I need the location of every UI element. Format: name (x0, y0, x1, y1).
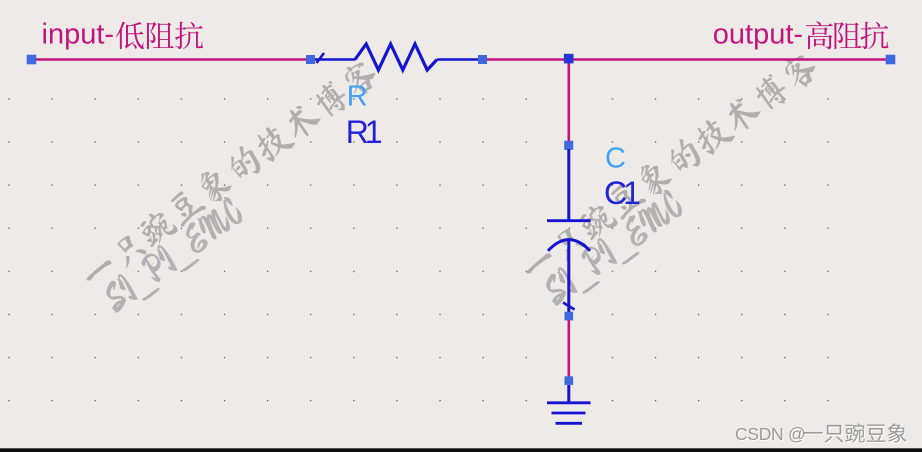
wire node-to-capacitor vertical segment (567, 60, 570, 146)
wire capacitor-to-ground vertical segment (567, 320, 570, 377)
node input endpoint handle (27, 55, 37, 65)
svg-text:C: C (605, 143, 626, 175)
svg-text:R1: R1 (346, 114, 382, 150)
wire output segment (487, 58, 891, 61)
capacitor C1 pin 2 tick (563, 303, 575, 310)
capacitor C1 pin 1 handle (564, 141, 573, 150)
node output endpoint handle (886, 55, 896, 65)
svg-text:R: R (347, 81, 368, 113)
watermark 2 (decorative) (516, 49, 843, 315)
resistor R1 (315, 44, 478, 70)
wire input segment (32, 58, 311, 61)
watermark 1 (decorative) (76, 56, 403, 322)
CSDN credit (decorative) (736, 424, 908, 445)
svg-text:C1: C1 (604, 175, 640, 211)
net label output-高阻抗 (713, 19, 889, 51)
junction node (564, 54, 574, 64)
svg-text:CSDN @: CSDN @ (735, 424, 805, 444)
ground (547, 385, 591, 423)
ground endpoint handle (565, 376, 574, 385)
resistor R1 pin 2 handle (478, 55, 487, 64)
svg-text:input-: input- (42, 19, 115, 51)
svg-text:output-: output- (713, 19, 803, 51)
capacitor C1 pin 2 handle (565, 312, 574, 321)
capacitor C1 (547, 149, 591, 313)
resistor R1 pin 1 tick (317, 53, 325, 63)
bottom bar (decorative) (0, 448, 922, 452)
resistor R1 pin 1 handle (306, 55, 315, 64)
net label input-低阻抗 (42, 19, 204, 51)
